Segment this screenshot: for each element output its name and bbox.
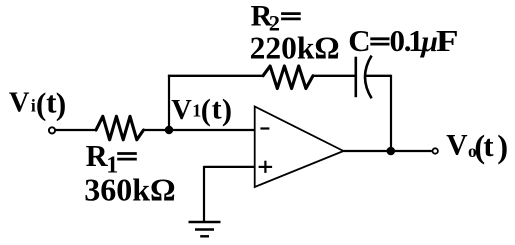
wire feedback vertical right (390, 75, 392, 151)
svg-text:F: F (436, 24, 459, 58)
svg-text:220kΩ: 220kΩ (250, 31, 340, 66)
wire to ground (203, 166, 205, 222)
svg-text:C0.1μ: C0.1μ (348, 23, 438, 58)
wire node V1 to op-amp inverting input (169, 129, 255, 131)
op-amp U1 triangle (255, 107, 344, 188)
wire feedback top left segment (168, 75, 263, 77)
resistor R2 (263, 66, 313, 89)
node output junction (387, 147, 396, 156)
wire R2 to capacitor C (313, 75, 355, 77)
svg-text:360kΩ: 360kΩ (84, 171, 175, 207)
label R2 designator (251, 0, 301, 35)
wire non-inverting input (204, 166, 255, 168)
capacitor C right curved plate (365, 56, 372, 99)
wire op-amp output (344, 150, 432, 152)
capacitor C left plate (354, 57, 357, 97)
node V1 junction (165, 126, 173, 134)
label C value (348, 23, 458, 58)
op-amp plus sign (259, 161, 273, 173)
resistor R1 (96, 116, 144, 140)
wire input to R1 (56, 129, 97, 131)
svg-text:V1(t): V1(t) (171, 92, 232, 127)
input terminal Vi (49, 127, 55, 133)
ground (189, 222, 221, 236)
svg-text:Vo(t): Vo(t) (446, 129, 508, 166)
op-amp minus sign (260, 127, 269, 129)
wire capacitor to feedback right (366, 75, 392, 77)
wire R1 to node V1 (144, 129, 170, 131)
label R1 designator (86, 139, 137, 178)
svg-text:Vi(t): Vi(t) (9, 85, 66, 122)
wire feedback vertical left (168, 75, 170, 130)
output terminal Vo (433, 148, 438, 153)
